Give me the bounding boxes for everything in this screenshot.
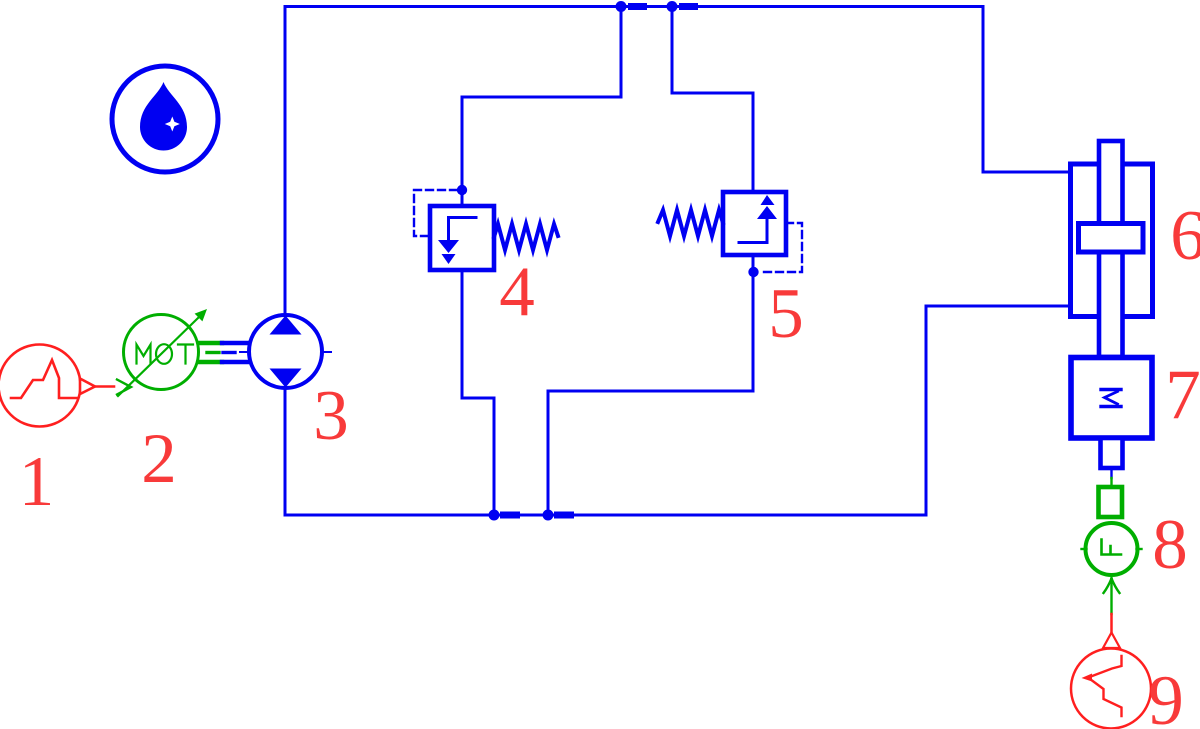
relief valve 4 xyxy=(414,185,558,270)
wire: valve 4 bottom to bottom rail xyxy=(462,270,494,515)
junction bottom B xyxy=(543,510,575,521)
wire: branch to valve 4 top xyxy=(462,7,621,207)
cylinder 6 xyxy=(1071,141,1153,357)
wire: top rail xyxy=(285,5,983,8)
svg-text:8: 8 xyxy=(1152,506,1188,584)
svg-text:6: 6 xyxy=(1170,197,1200,275)
fluid properties icon (tank) xyxy=(112,66,218,172)
wire: top rail down right side xyxy=(982,7,985,173)
svg-text:3: 3 xyxy=(313,377,349,455)
junction bottom A xyxy=(489,510,521,521)
junction top B xyxy=(667,1,699,12)
motor MOT 2 xyxy=(117,309,222,396)
svg-text:2: 2 xyxy=(141,420,177,498)
wire: to cylinder top port xyxy=(983,171,1071,174)
wire: valve 5 bottom to bottom rail xyxy=(548,255,753,515)
svg-text:9: 9 xyxy=(1148,662,1184,729)
shaft (blue part) xyxy=(222,343,248,362)
force sensor 8 xyxy=(1082,478,1142,614)
wire: bottom rail up to cylinder lower port xyxy=(925,306,928,515)
wire: to cylinder lower port xyxy=(926,305,1071,308)
pump 3 xyxy=(240,315,331,388)
svg-text:1: 1 xyxy=(19,443,55,521)
svg-text:7: 7 xyxy=(1165,356,1200,434)
mass 7 xyxy=(1071,358,1152,479)
svg-text:4: 4 xyxy=(499,253,535,331)
signal source 1 xyxy=(0,345,114,427)
wire: pump outlet up to top rail xyxy=(284,7,287,314)
wire: pump return down xyxy=(284,390,287,515)
relief valve 5 xyxy=(658,192,802,277)
junction top A xyxy=(616,1,648,12)
signal source 9 xyxy=(1071,614,1151,729)
wire: bottom rail xyxy=(285,514,926,517)
wire: branch to valve 5 top xyxy=(672,7,753,193)
svg-text:5: 5 xyxy=(768,275,804,353)
